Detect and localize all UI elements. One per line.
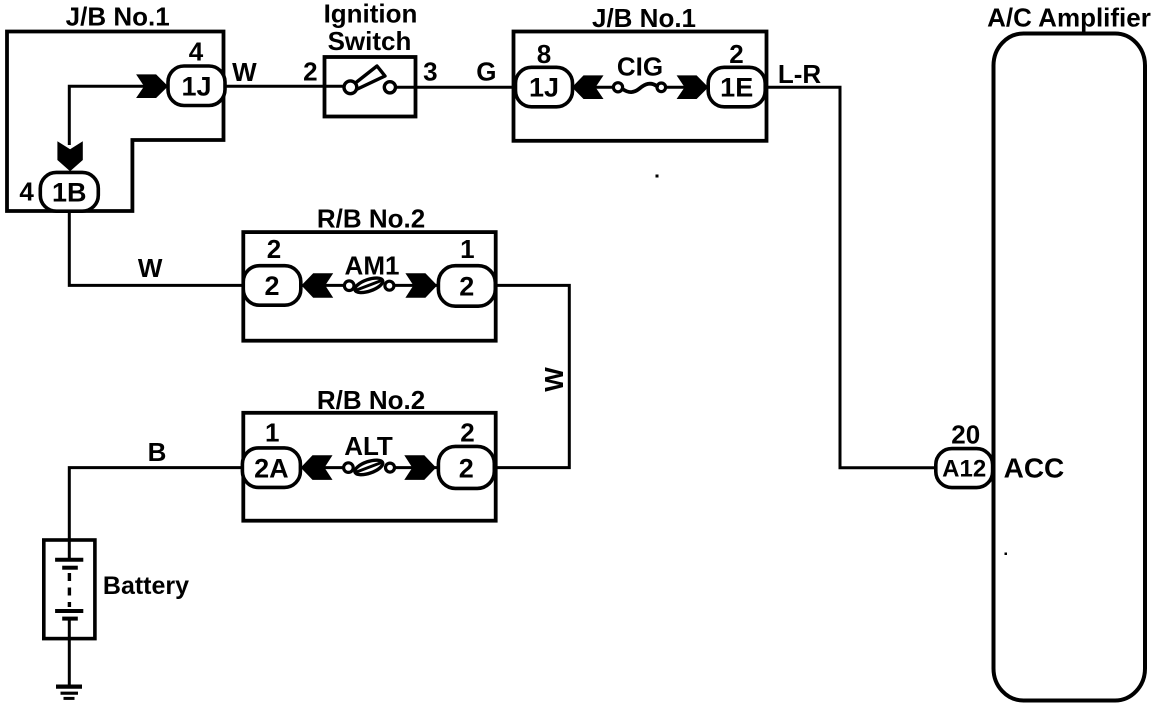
svg-text:2: 2 (264, 271, 279, 301)
svg-text:AM1: AM1 (345, 251, 400, 281)
svg-text:1: 1 (460, 234, 474, 264)
svg-text:1: 1 (265, 418, 279, 448)
svg-text:3: 3 (423, 57, 437, 87)
svg-text:A/C Amplifier: A/C Amplifier (987, 3, 1151, 33)
svg-text:B: B (148, 437, 167, 467)
svg-text:2: 2 (459, 453, 474, 483)
svg-text:Ignition: Ignition (324, 0, 418, 28)
svg-text:W: W (138, 253, 163, 283)
svg-text:2: 2 (303, 57, 317, 87)
svg-text:ACC: ACC (1004, 452, 1065, 483)
svg-text:2: 2 (460, 418, 474, 448)
svg-text:1J: 1J (529, 73, 559, 103)
svg-text:2: 2 (267, 234, 281, 264)
svg-text:2A: 2A (254, 453, 289, 483)
svg-text:J/B No.1: J/B No.1 (592, 3, 696, 33)
svg-text:R/B No.2: R/B No.2 (317, 204, 425, 234)
svg-text:1J: 1J (181, 71, 211, 101)
svg-text:G: G (476, 57, 496, 87)
svg-text:L-R: L-R (778, 59, 822, 89)
svg-text:Battery: Battery (103, 572, 189, 600)
svg-text:2: 2 (729, 39, 743, 69)
svg-text:4: 4 (189, 36, 204, 66)
svg-text:J/B No.1: J/B No.1 (66, 1, 170, 31)
svg-text:ALT: ALT (344, 431, 393, 461)
svg-text:1B: 1B (52, 177, 87, 207)
svg-text:R/B No.2: R/B No.2 (317, 385, 425, 415)
svg-text:W: W (539, 367, 569, 392)
svg-text:CIG: CIG (617, 52, 663, 82)
svg-text:4: 4 (19, 177, 34, 207)
svg-text:Switch: Switch (328, 26, 412, 56)
svg-text:20: 20 (951, 420, 980, 450)
svg-text:1E: 1E (720, 73, 753, 103)
svg-text:W: W (232, 57, 257, 87)
svg-text:2: 2 (459, 272, 474, 302)
svg-text:8: 8 (537, 39, 551, 69)
svg-text:A12: A12 (942, 456, 986, 483)
